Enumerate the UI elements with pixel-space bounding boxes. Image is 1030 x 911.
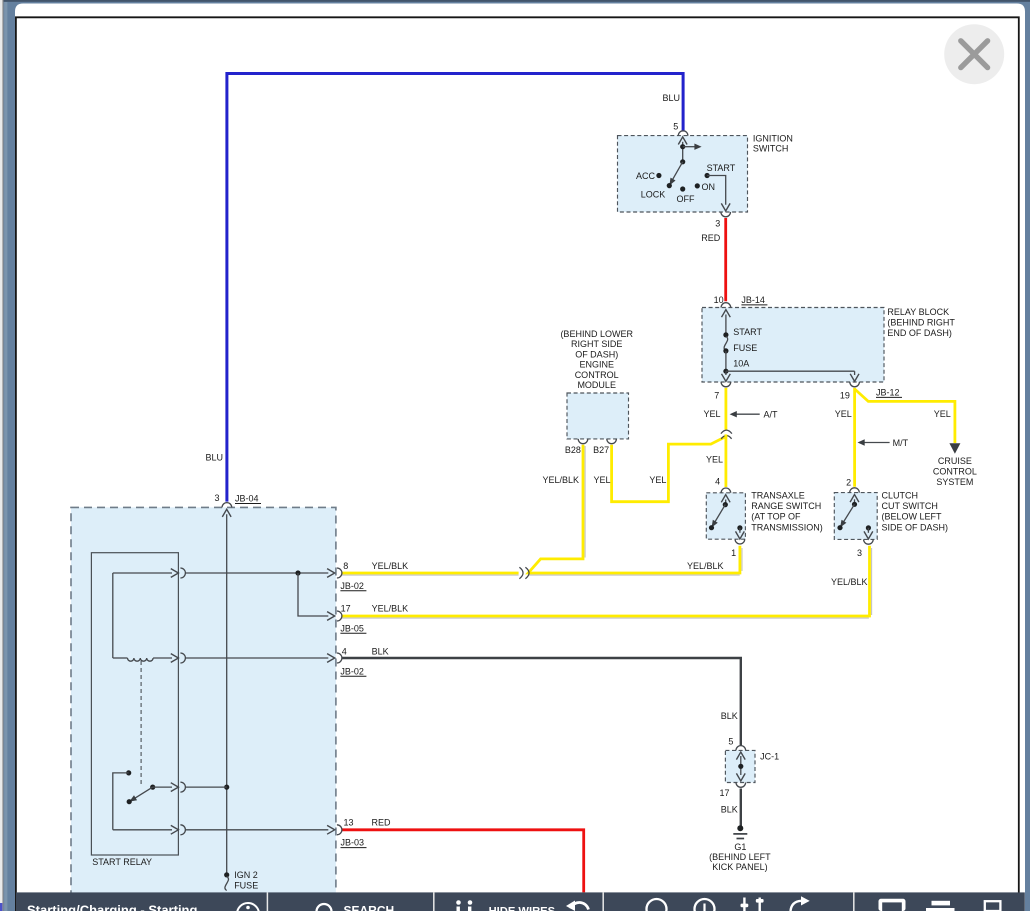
- pin number 3 JB-04: [214, 493, 219, 503]
- ignition switch name: [753, 133, 793, 153]
- diagram group: [71, 136, 884, 900]
- svg-text:BLU: BLU: [205, 453, 223, 463]
- start relay actuator dashed link: [140, 661, 142, 786]
- svg-text:JB-02: JB-02: [340, 666, 364, 676]
- svg-text:CUT SWITCH: CUT SWITCH: [882, 501, 938, 511]
- contact LOCK: [667, 183, 672, 188]
- pin number 17 JC-1: [719, 788, 729, 798]
- start relay name: [92, 857, 152, 867]
- pin 19 connector arc relay block: [850, 382, 860, 387]
- svg-text:BLU: BLU: [662, 93, 680, 103]
- svg-text:BLK: BLK: [721, 711, 738, 721]
- svg-text:4: 4: [715, 477, 720, 487]
- wire YEL: branch JB-12 to cruise control system: [855, 390, 955, 444]
- relay block box: [702, 308, 884, 383]
- svg-text:JB-05: JB-05: [340, 623, 364, 633]
- junction label JB-05: [340, 623, 366, 633]
- ignition position labels: [636, 163, 736, 204]
- svg-text:TRANSAXLE: TRANSAXLE: [751, 491, 805, 501]
- svg-text:(BELOW LEFT: (BELOW LEFT: [882, 512, 943, 522]
- outer blue-grey frame: [4, 0, 1030, 30]
- cruise control arrow: [949, 443, 960, 454]
- svg-text:JC-1: JC-1: [760, 752, 779, 762]
- start relay inner box: [91, 553, 178, 855]
- label BLK below JC-1: [721, 804, 738, 814]
- JC-1 internal: [736, 752, 745, 781]
- wire to pin 19: [726, 370, 855, 372]
- svg-text:RED: RED: [372, 818, 392, 828]
- pin 3 connector arc clutch switch: [864, 539, 874, 544]
- ground label G1: [709, 842, 771, 872]
- pin 2 connector arc clutch switch: [850, 488, 860, 493]
- svg-text:17: 17: [719, 788, 729, 798]
- pin 4 connector arc transaxle: [721, 488, 731, 493]
- label YEL mid wire: [649, 475, 666, 485]
- svg-text:RELAY BLOCK: RELAY BLOCK: [887, 307, 949, 317]
- svg-text:13: 13: [344, 818, 354, 828]
- label RED row13: [372, 818, 392, 828]
- pin 17 connector arc JC-1: [736, 783, 746, 788]
- pin number 4 row4: [342, 646, 347, 656]
- label YEL/BLK row17: [372, 603, 409, 613]
- svg-text:JB-12: JB-12: [876, 387, 900, 397]
- label YEL/BLK B28 wire: [542, 475, 579, 485]
- svg-text:END OF DASH): END OF DASH): [887, 328, 952, 338]
- svg-text:CRUISE: CRUISE: [938, 456, 972, 466]
- pin B28 connector arc ECM: [578, 439, 588, 444]
- wire coil left riser: [112, 573, 114, 658]
- label YEL cruise: [934, 409, 951, 419]
- svg-text:2: 2: [846, 478, 851, 488]
- svg-text:SWITCH: SWITCH: [753, 144, 789, 154]
- inline connector on YEL/BLK wire: [519, 567, 529, 578]
- svg-text:YEL: YEL: [594, 475, 611, 485]
- relay coil K winding: [113, 657, 128, 659]
- fuse IGN 2 FUSE element: [224, 872, 229, 890]
- label YEL B27 wire: [594, 475, 611, 485]
- junction connector JC-1 box: [725, 750, 755, 782]
- svg-text:4: 4: [342, 646, 347, 656]
- svg-text:A/T: A/T: [764, 409, 779, 419]
- ignition switch wiper arm (at LOCK): [667, 162, 683, 187]
- label YEL below connector: [706, 454, 723, 464]
- wire branch to pin 17: [298, 573, 328, 616]
- svg-text:YEL/BLK: YEL/BLK: [831, 577, 868, 587]
- svg-text:YEL: YEL: [835, 409, 852, 419]
- wire YEL: to transaxle range switch pin4: [725, 434, 728, 487]
- transaxle range switch internal: [709, 495, 744, 539]
- svg-text:BLK: BLK: [721, 804, 738, 814]
- svg-text:YEL: YEL: [649, 475, 666, 485]
- left grey scrollbar strip: [0, 0, 4, 911]
- svg-text:3: 3: [715, 219, 720, 229]
- contact ACC: [656, 173, 661, 178]
- pin number 5 JC-1: [728, 736, 733, 746]
- close button: [944, 24, 1004, 84]
- wire BLK: JC-1 pin17 to ground G1: [740, 789, 742, 827]
- pin label B28: [565, 445, 581, 455]
- start relay switch contacts: [113, 770, 342, 834]
- pin number 3 clutch: [857, 548, 862, 558]
- svg-text:5: 5: [673, 122, 678, 132]
- svg-text:(BEHIND LOWER: (BEHIND LOWER: [560, 329, 633, 339]
- svg-text:SEARCH: SEARCH: [344, 904, 395, 911]
- clutch cut switch name: [882, 491, 949, 533]
- transaxle range switch box: [706, 493, 745, 539]
- pin number 13: [344, 818, 354, 828]
- pin number 3 ignition: [715, 219, 720, 229]
- clutch cut switch box: [834, 493, 877, 540]
- svg-text:JB-02: JB-02: [340, 581, 364, 591]
- svg-text:3: 3: [857, 548, 862, 558]
- svg-text:(AT TOP OF: (AT TOP OF: [751, 512, 801, 522]
- junction label JB-04: [235, 494, 261, 504]
- svg-text:SIDE OF DASH): SIDE OF DASH): [882, 522, 949, 532]
- transaxle range switch name: [751, 491, 823, 533]
- relay pole node: [150, 785, 155, 790]
- svg-text:OF DASH): OF DASH): [575, 349, 618, 359]
- junction node pin8/pin17 tee: [295, 570, 300, 575]
- wire YEL/BLK net: relay pin8 / ECM B28 / transaxle pin1: [342, 445, 743, 575]
- svg-text:ON: ON: [702, 182, 716, 192]
- junction label JB-02 row8: [340, 581, 366, 591]
- svg-text:3: 3: [214, 493, 219, 503]
- svg-text:YEL/BLK: YEL/BLK: [372, 603, 409, 613]
- label BLK row4: [372, 646, 389, 656]
- svg-text:(BEHIND RIGHT: (BEHIND RIGHT: [887, 318, 955, 328]
- pin number 5 ignition: [673, 122, 678, 132]
- pin 7 connector arc relay block: [721, 382, 731, 387]
- svg-text:(BEHIND LEFT: (BEHIND LEFT: [709, 852, 771, 862]
- contact START: [705, 173, 710, 178]
- pin 1 connector arc transaxle: [735, 539, 745, 544]
- svg-text:RED: RED: [701, 233, 721, 243]
- contact ON: [695, 183, 700, 188]
- svg-text:1: 1: [731, 548, 736, 558]
- svg-text:G1: G1: [734, 842, 746, 852]
- svg-text:LOCK: LOCK: [641, 190, 666, 200]
- pin 5 connector arc ignition: [678, 131, 688, 136]
- relay switch arm: [132, 787, 153, 800]
- svg-text:SYSTEM: SYSTEM: [936, 477, 973, 487]
- label BLU top: [662, 93, 680, 103]
- cruise control system name: [933, 456, 977, 487]
- start relay coil circuit: [113, 568, 342, 663]
- label BLU left: [205, 453, 223, 463]
- svg-text:HIDE WIRES: HIDE WIRES: [489, 906, 556, 911]
- svg-text:MODULE: MODULE: [577, 380, 616, 390]
- relay block name: [887, 307, 955, 338]
- svg-text:IGN 2: IGN 2: [234, 870, 258, 880]
- contact OFF: [680, 186, 685, 191]
- junction node relay pole to feed: [224, 785, 229, 790]
- ground G1 symbol: [733, 825, 747, 838]
- label RED: [701, 233, 721, 243]
- junction label JB-02 row4: [340, 666, 366, 676]
- IGN 2 fuse label: [234, 870, 258, 890]
- wire YEL: relay block pin19 to clutch cut switch pin2: [853, 388, 856, 487]
- ECM name: [560, 329, 633, 390]
- svg-text:KICK PANEL): KICK PANEL): [712, 862, 767, 872]
- svg-text:FUSE: FUSE: [234, 880, 258, 890]
- svg-text:ENGINE: ENGINE: [579, 360, 614, 370]
- pin number 4 transaxle: [715, 477, 720, 487]
- wire RED: start relay pin13 JB-03: [342, 830, 584, 893]
- svg-text:10: 10: [714, 295, 724, 305]
- svg-text:10A: 10A: [733, 359, 749, 369]
- svg-text:YEL: YEL: [706, 454, 723, 464]
- svg-text:RIGHT SIDE: RIGHT SIDE: [571, 339, 622, 349]
- pin B27 connector arc ECM: [607, 439, 617, 444]
- svg-text:B27: B27: [593, 445, 609, 455]
- junction label JB-03: [341, 838, 367, 848]
- svg-text:B28: B28: [565, 445, 581, 455]
- svg-text:ACC: ACC: [636, 171, 656, 181]
- pin 3 connector arc JB-04: [222, 503, 232, 508]
- svg-text:8: 8: [343, 561, 348, 571]
- label YEL pin7: [703, 409, 720, 419]
- svg-text:17: 17: [341, 603, 351, 613]
- svg-text:19: 19: [840, 391, 850, 401]
- clutch cut switch internal: [837, 495, 872, 540]
- wire YEL/BLK net: relay pin17 to clutch cut switch pin3: [342, 546, 872, 618]
- label YEL/BLK clutch wire: [831, 577, 868, 587]
- ignition switch box: [618, 136, 748, 212]
- svg-text:YEL/BLK: YEL/BLK: [372, 561, 409, 571]
- svg-text:YEL/BLK: YEL/BLK: [687, 561, 724, 571]
- pin label B27: [593, 445, 609, 455]
- pin number 19: [840, 391, 850, 401]
- junction label JC-1: [760, 752, 779, 762]
- svg-text:YEL/BLK: YEL/BLK: [542, 475, 579, 485]
- fuse F: START FUSE 10A element: [723, 332, 728, 337]
- pin number 7: [714, 391, 719, 401]
- pin 5 connector arc JC-1: [736, 746, 746, 751]
- svg-text:START: START: [707, 163, 736, 173]
- svg-text:CLUTCH: CLUTCH: [882, 491, 919, 501]
- svg-text:OFF: OFF: [677, 194, 695, 204]
- junction label JB-12: [876, 387, 902, 397]
- wire BLU: ignition pin5 to JB-04: [227, 74, 683, 502]
- svg-text:TRANSMISSION): TRANSMISSION): [751, 522, 823, 532]
- bottom toolbar: [16, 892, 1025, 911]
- svg-text:JB-04: JB-04: [235, 494, 259, 504]
- junction label JB-14: [741, 295, 767, 305]
- svg-text:BLK: BLK: [372, 646, 389, 656]
- svg-text:CONTROL: CONTROL: [575, 370, 619, 380]
- svg-text:YEL: YEL: [703, 409, 720, 419]
- ignition switch rotor common node: [680, 144, 701, 165]
- engine control module box: [567, 393, 629, 439]
- svg-text:M/T: M/T: [893, 438, 909, 448]
- label BLK above JC-1: [721, 711, 738, 721]
- M/T arrow label: [858, 438, 909, 448]
- svg-text:JB-14: JB-14: [741, 295, 765, 305]
- label YEL/BLK row8: [372, 561, 409, 571]
- svg-text:CONTROL: CONTROL: [933, 467, 977, 477]
- inline connector on YEL wire below A/T: [721, 430, 732, 439]
- wire YEL: ECM B27 to transaxle feed: [612, 436, 727, 501]
- svg-text:JB-03: JB-03: [341, 838, 365, 848]
- svg-text:FUSE: FUSE: [733, 343, 757, 353]
- A/T arrow label: [730, 409, 778, 419]
- relay block internal: start fuse 10A: [722, 310, 860, 382]
- pin 3 connector arc ignition: [721, 212, 731, 217]
- pin number 2 clutch: [846, 478, 851, 488]
- start fuse label: [733, 327, 762, 369]
- start relay feed wire from JB-04 (IGN 2 fuse line): [222, 509, 231, 875]
- label YEL pin19: [835, 409, 852, 419]
- label YEL/BLK row8 mid: [687, 561, 724, 571]
- svg-text:Starting/Charging - Starting: Starting/Charging - Starting: [27, 903, 198, 911]
- wire BLK: start relay pin4 to JC-1 pin5: [342, 658, 741, 746]
- wire YEL: relay block pin7 down: [725, 388, 728, 430]
- relay upper contact node: [126, 770, 131, 775]
- pin number 17: [341, 603, 351, 613]
- pin number 8: [343, 561, 348, 571]
- svg-text:IGNITION: IGNITION: [753, 133, 793, 143]
- svg-text:RANGE SWITCH: RANGE SWITCH: [751, 501, 821, 511]
- pin number 1 transaxle: [731, 548, 736, 558]
- junction node below fuse: [723, 369, 728, 374]
- wire START contact to pin 3: [707, 176, 730, 212]
- ignition switch pin 5 entry arrow: [678, 137, 687, 162]
- pin 10 connector arc relay block: [721, 303, 731, 308]
- svg-text:YEL: YEL: [934, 409, 951, 419]
- svg-text:7: 7: [714, 391, 719, 401]
- svg-text:5: 5: [728, 736, 733, 746]
- start relay outer connector box JB: [71, 507, 336, 899]
- svg-text:START RELAY: START RELAY: [92, 857, 152, 867]
- wire RED: ignition pin3 to JB-14 pin10: [724, 218, 727, 301]
- wire pin 8 row internal: [113, 572, 172, 574]
- svg-text:START: START: [733, 327, 762, 337]
- pin number 10: [714, 295, 724, 305]
